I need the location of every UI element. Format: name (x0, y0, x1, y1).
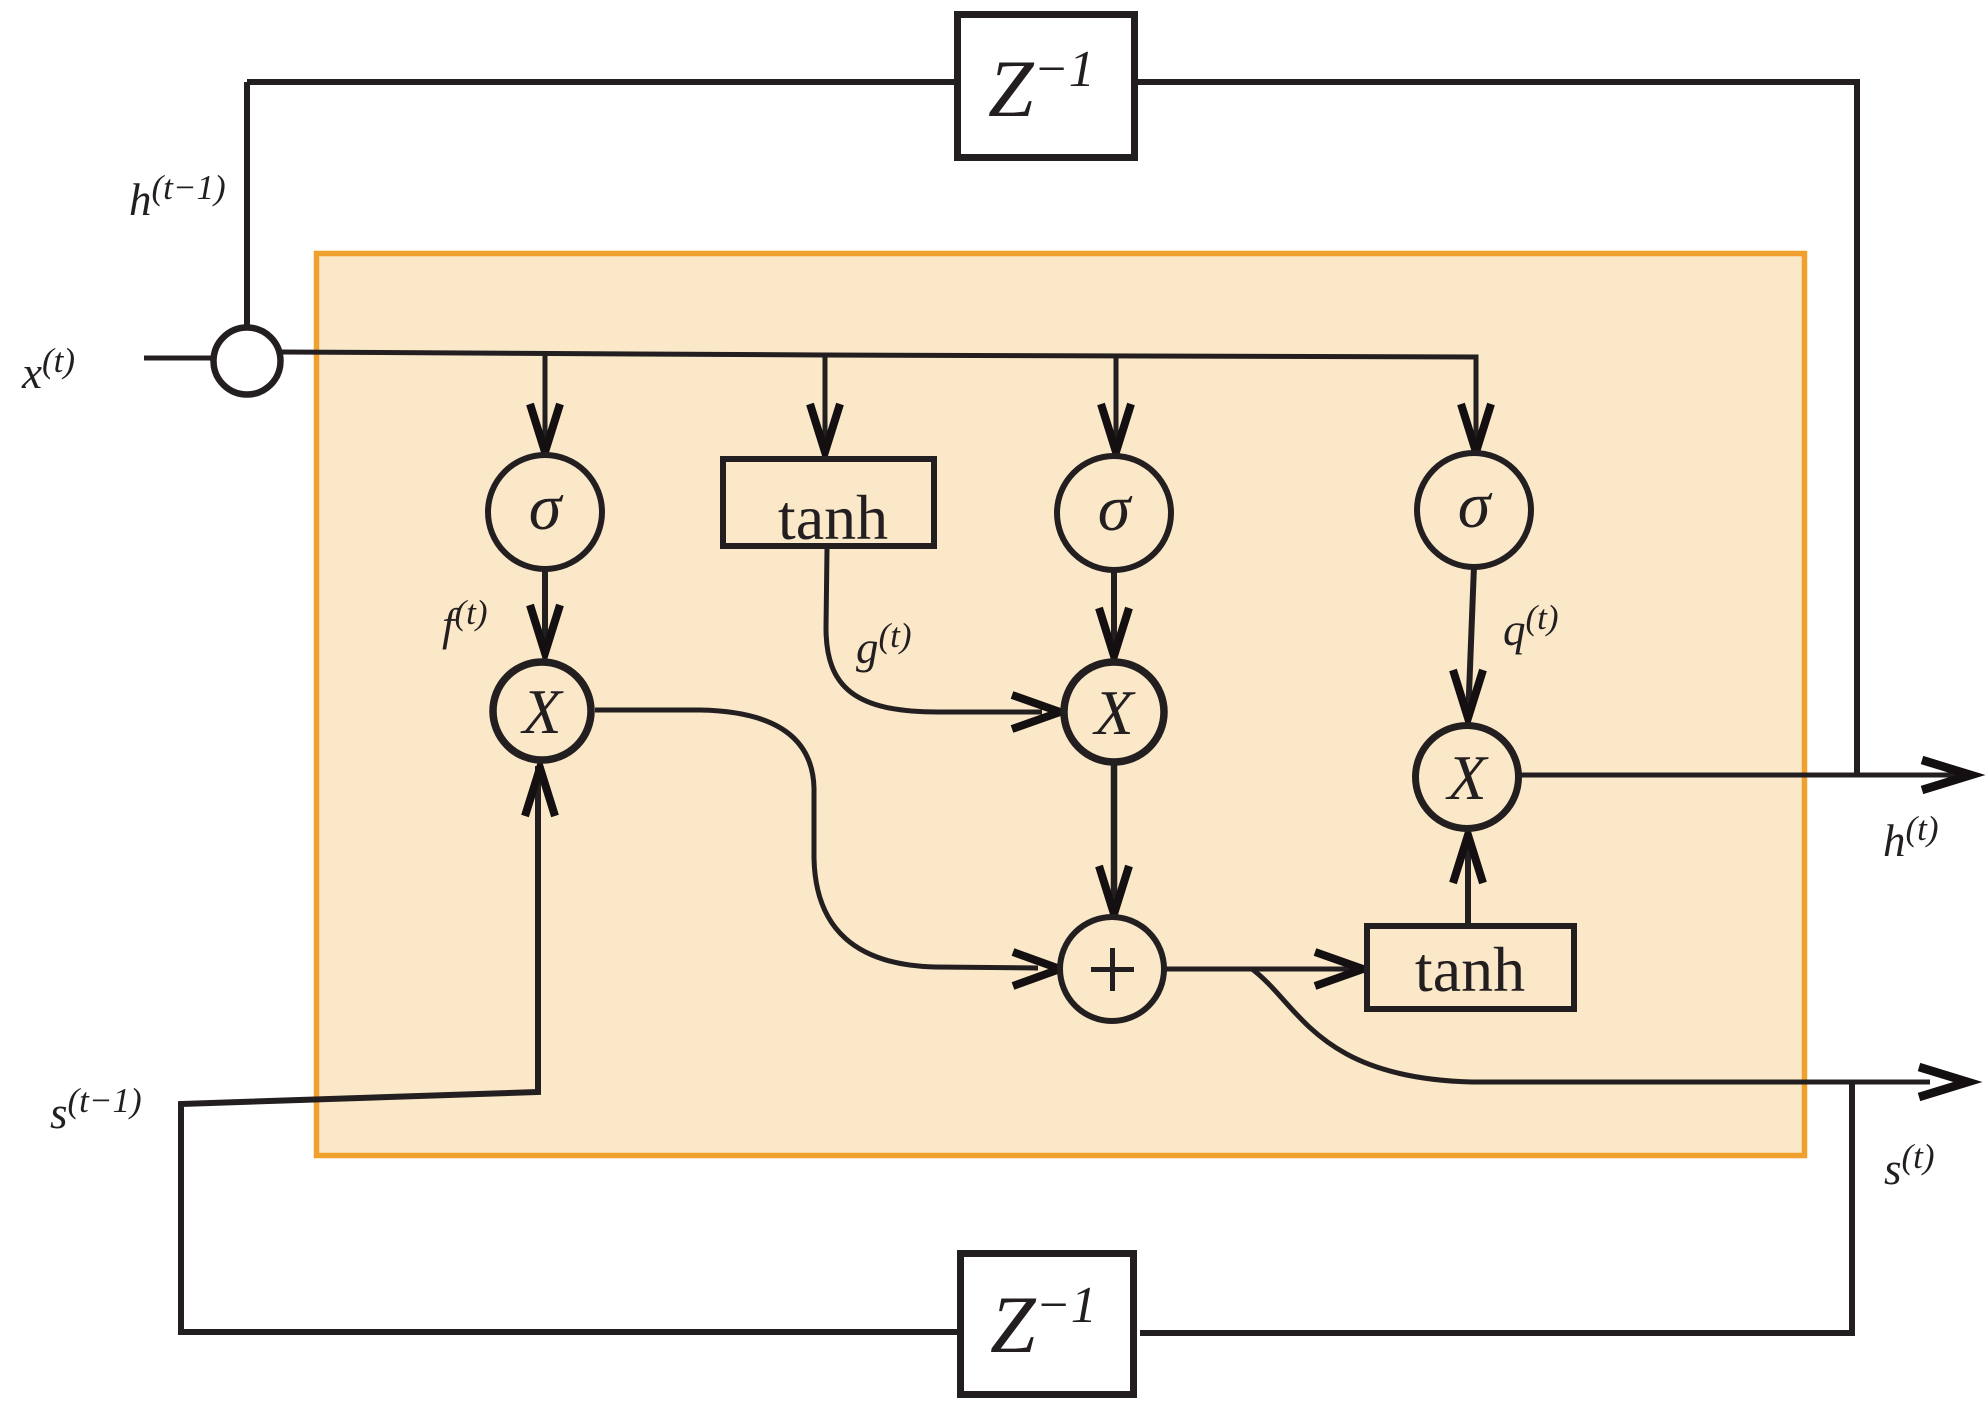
wire adder to tanh output box (1164, 967, 1358, 972)
wire h(t-1) vertical into node (244, 82, 250, 330)
arrowhead into sigma q (1461, 404, 1491, 452)
wire sigma q to X3 (1468, 566, 1474, 719)
wire sigma i to X2 (1111, 566, 1117, 656)
wire X1 output S-curve into adder (595, 710, 1038, 968)
wire X2 down to adder (1111, 762, 1118, 912)
adder plus sign (1091, 948, 1134, 991)
arrowhead into adder left (1013, 952, 1060, 986)
arrowhead into tanh output box (1315, 952, 1363, 986)
wire top feedback right segment and vertical down to h(t) line (1135, 82, 1857, 773)
arrowhead into sigma f (530, 404, 560, 452)
arrowhead s(t) output (1919, 1067, 1968, 1097)
LSTM cell body (orange box) (317, 254, 1805, 1156)
svg-text:tanh: tanh (778, 482, 888, 553)
arrowhead into adder top (1099, 866, 1129, 914)
wire branch down to tanh g (823, 355, 828, 451)
wire h(t-1) top feedback left segment (247, 79, 957, 85)
arrowhead into sigma i (1101, 404, 1131, 452)
sigma gate f circle (488, 455, 602, 569)
svg-text:σ: σ (529, 471, 564, 544)
wire branch down to sigma i (1114, 357, 1119, 452)
wire h(t) output from X3 (1519, 773, 1958, 778)
wire tanh g curve into X2 (826, 549, 1042, 712)
multiplier X2 circle (1064, 662, 1164, 762)
multiplier X3 circle (1416, 726, 1519, 829)
wire s(t) feedback down to bottom delay (1140, 1082, 1852, 1333)
sigma gate q circle (1417, 453, 1531, 567)
tanh gate g box (723, 459, 934, 546)
input merge node circle (214, 328, 281, 395)
tanh output box (1367, 926, 1574, 1009)
adder circle (1060, 917, 1164, 1021)
wire sigma f to X1 (542, 566, 548, 655)
bottom delay box Z^-1 (961, 1254, 1134, 1395)
arrowhead h(t) output (1922, 760, 1971, 790)
wire tanh output to X3 (1465, 838, 1471, 927)
arrowhead into X1 top (530, 605, 560, 653)
wire branch down to sigma f (543, 354, 548, 451)
top delay box Z^-1 (958, 15, 1135, 158)
multiplier X1 circle (493, 662, 591, 760)
wire x(t) input stub (144, 356, 215, 361)
svg-text:X: X (1444, 742, 1489, 813)
arrowhead into X3 bottom (1453, 835, 1483, 883)
arrowhead into X2 top (1099, 608, 1129, 656)
svg-text:σ: σ (1098, 472, 1133, 545)
svg-text:X: X (1091, 677, 1136, 748)
wire s(t) branch curve from adder output (1252, 969, 1930, 1082)
wire s(t-1) from bottom delay to X1 (181, 766, 957, 1332)
svg-text:tanh: tanh (1415, 934, 1525, 1005)
arrowhead into X1 bottom (525, 768, 555, 816)
arrowhead into X2 left (1012, 695, 1060, 729)
svg-text:σ: σ (1458, 469, 1493, 542)
sigma gate i circle (1057, 456, 1171, 570)
wire x(t) main horizontal with corner down to fourth gate (280, 352, 1476, 451)
arrowhead into tanh g (810, 404, 840, 452)
svg-text:X: X (519, 676, 564, 747)
arrowhead into X3 top (1453, 670, 1483, 718)
